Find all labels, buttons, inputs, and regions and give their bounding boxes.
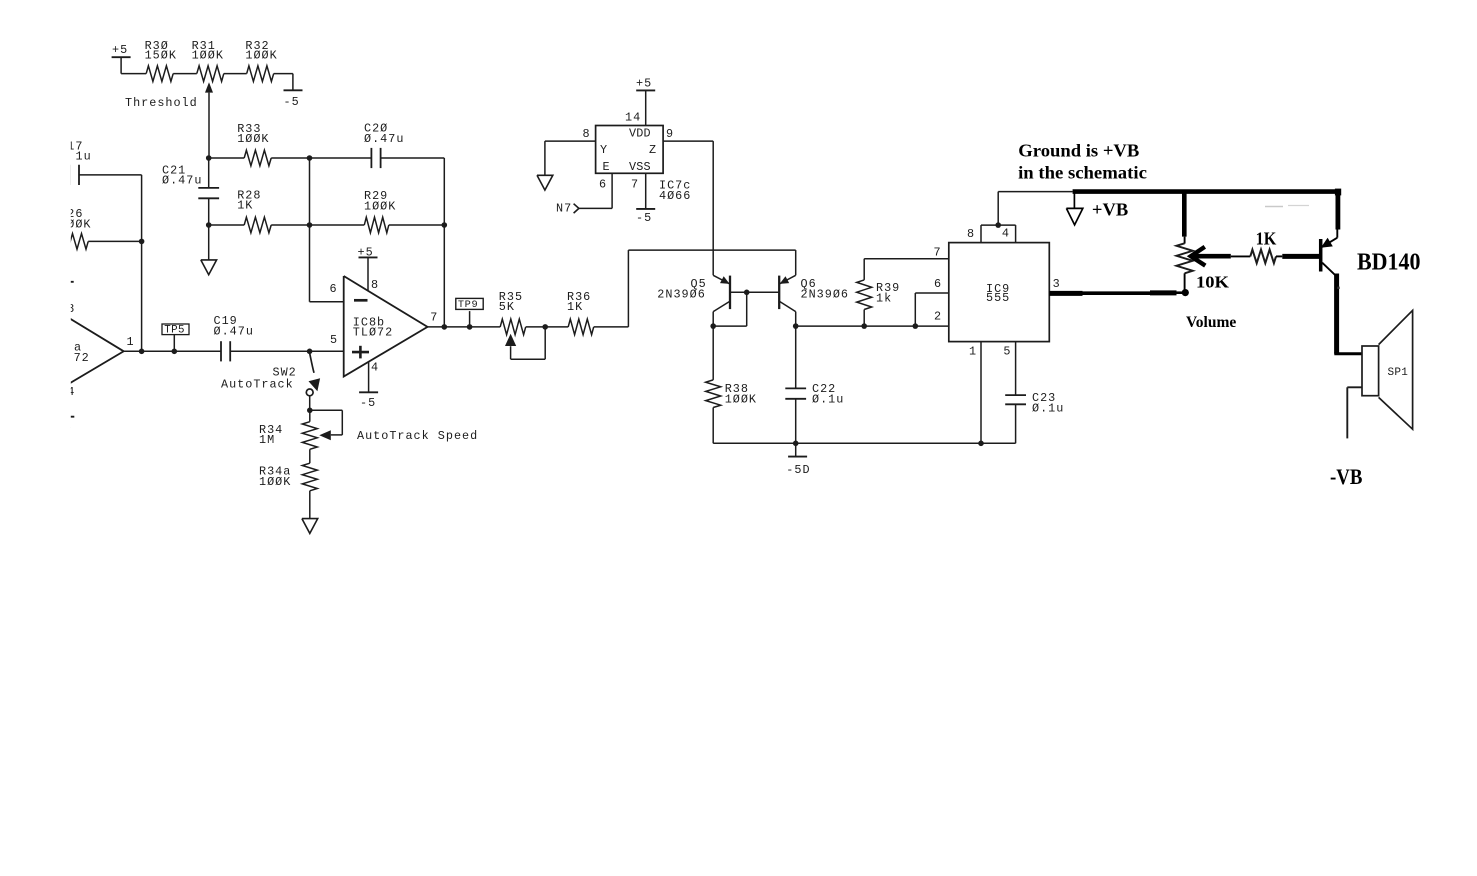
svg-text:Ø.47u: Ø.47u [364, 132, 404, 146]
svg-text:1K: 1K [567, 300, 583, 314]
svg-text:2N39Ø6: 2N39Ø6 [801, 287, 849, 301]
svg-text:+5: +5 [112, 43, 128, 57]
svg-text:Y: Y [600, 143, 608, 157]
svg-text:10K: 10K [1196, 272, 1229, 291]
svg-text:AutoTrack Speed: AutoTrack Speed [357, 429, 478, 443]
svg-text:5: 5 [330, 333, 338, 347]
svg-text:-VB: -VB [1330, 464, 1363, 489]
svg-text:SP1: SP1 [1388, 367, 1409, 379]
svg-text:9: 9 [666, 127, 674, 141]
svg-text:1u: 1u [76, 150, 92, 164]
svg-text:1: 1 [969, 344, 977, 358]
svg-text:7: 7 [631, 177, 639, 191]
svg-text:6: 6 [599, 177, 607, 191]
svg-text:TP9: TP9 [458, 299, 478, 311]
svg-text:1M: 1M [259, 433, 275, 447]
svg-text:1ØØK: 1ØØK [725, 392, 757, 406]
svg-text:1K: 1K [237, 199, 253, 213]
svg-text:15ØK: 15ØK [145, 48, 177, 62]
svg-text:N7: N7 [556, 201, 572, 215]
svg-text:-5: -5 [360, 396, 376, 410]
svg-text:Z: Z [649, 143, 657, 157]
svg-text:+5: +5 [358, 246, 374, 260]
svg-text:Volume: Volume [1186, 314, 1236, 331]
svg-text:Ø.1u: Ø.1u [1032, 402, 1064, 416]
svg-text:1ØØK: 1ØØK [245, 48, 277, 62]
svg-text:1ØØK: 1ØØK [192, 48, 224, 62]
svg-text:-5D: -5D [786, 463, 810, 477]
svg-text:BD140: BD140 [1357, 249, 1421, 275]
svg-text:72: 72 [74, 351, 90, 365]
svg-text:Ø.47u: Ø.47u [214, 324, 254, 338]
svg-text:TLØ72: TLØ72 [353, 326, 393, 340]
svg-text:7: 7 [430, 310, 438, 324]
svg-text:6: 6 [330, 282, 338, 296]
svg-text:Threshold: Threshold [125, 96, 198, 110]
svg-text:2: 2 [934, 309, 942, 323]
svg-text:1ØØK: 1ØØK [364, 200, 396, 214]
svg-text:-5: -5 [284, 95, 300, 109]
svg-text:1K: 1K [1256, 229, 1277, 249]
svg-text:Ø.1u: Ø.1u [812, 392, 844, 406]
svg-text:5: 5 [1003, 344, 1011, 358]
svg-text:8: 8 [967, 227, 975, 241]
svg-text:Ø.47u: Ø.47u [162, 174, 202, 188]
svg-text:VSS: VSS [629, 160, 651, 174]
svg-text:7: 7 [934, 245, 942, 259]
svg-text:VDD: VDD [629, 127, 651, 141]
svg-text:+5: +5 [636, 77, 652, 91]
svg-text:1ØØK: 1ØØK [237, 132, 269, 146]
svg-text:4: 4 [1002, 227, 1010, 241]
svg-text:in the schematic: in the schematic [1018, 162, 1147, 182]
svg-text:555: 555 [986, 291, 1010, 305]
svg-text:3: 3 [1053, 277, 1061, 291]
svg-text:1ØØK: 1ØØK [259, 475, 291, 489]
svg-text:AutoTrack: AutoTrack [221, 378, 294, 392]
svg-text:8: 8 [371, 278, 379, 292]
svg-text:+VB: +VB [1092, 200, 1128, 220]
svg-text:E: E [603, 160, 611, 174]
svg-text:Ground is +VB: Ground is +VB [1018, 141, 1139, 161]
svg-text:1k: 1k [876, 292, 892, 306]
svg-text:4: 4 [371, 361, 379, 375]
svg-text:5K: 5K [499, 300, 515, 314]
svg-text:2N39Ø6: 2N39Ø6 [657, 287, 705, 301]
svg-text:8: 8 [583, 127, 591, 141]
svg-text:14: 14 [625, 110, 641, 124]
svg-text:1: 1 [127, 335, 135, 349]
svg-text:6: 6 [934, 277, 942, 291]
svg-text:-5: -5 [636, 211, 652, 225]
svg-text:4Ø66: 4Ø66 [659, 189, 691, 203]
